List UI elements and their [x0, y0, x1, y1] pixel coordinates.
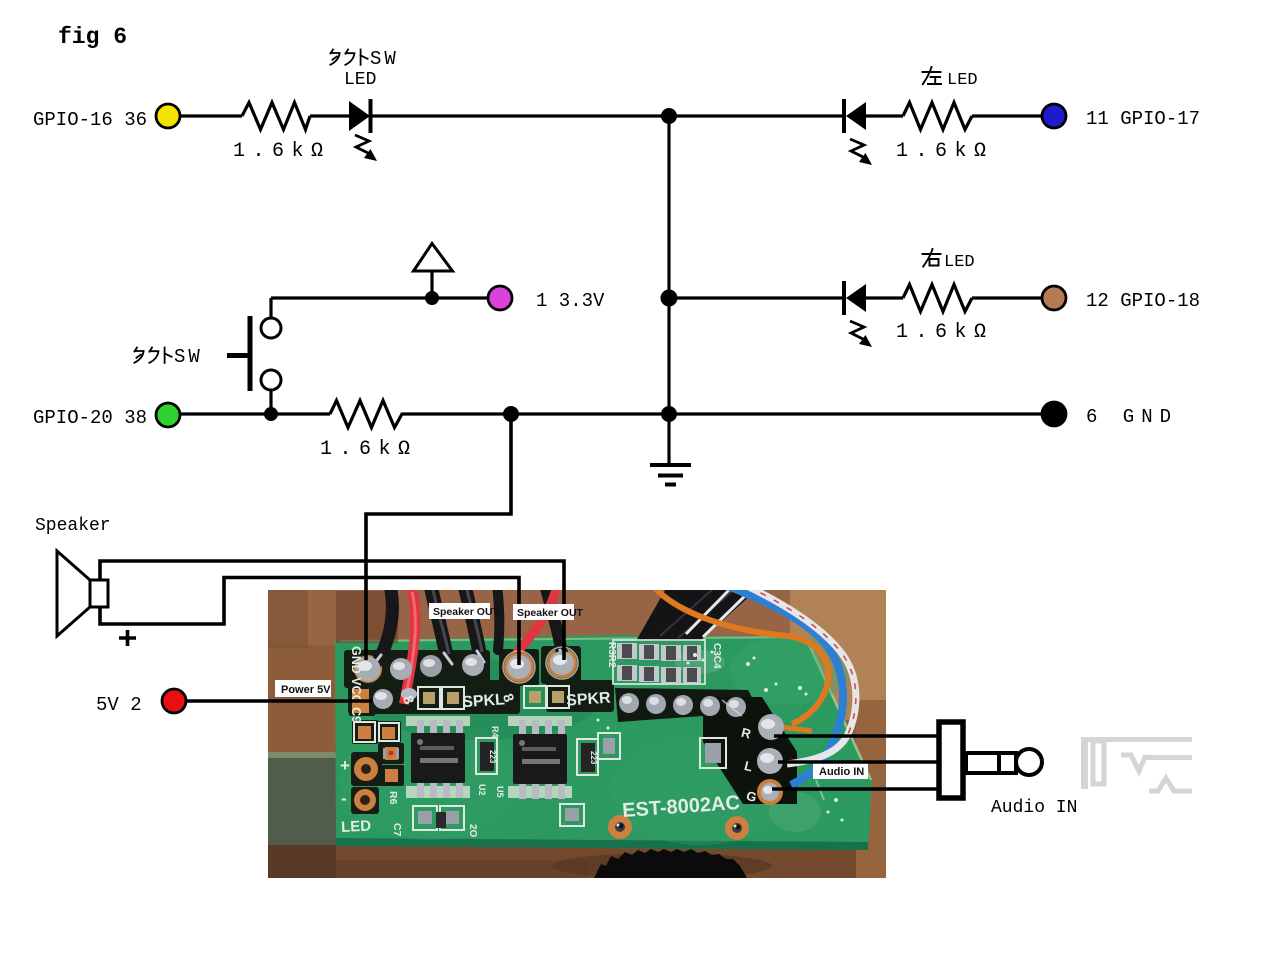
svg-text:SW: SW	[370, 48, 399, 70]
svg-text:GPIO-16 36: GPIO-16 36	[33, 109, 147, 131]
223 capacitor right	[577, 739, 598, 775]
board	[335, 635, 872, 850]
svg-text:-: -	[341, 789, 347, 808]
wire LED2 to R2	[866, 114, 903, 117]
svg-text:fig 6: fig 6	[58, 24, 127, 50]
junction switch/GPIO-20	[264, 407, 278, 421]
svg-text:C3C4: C3C4	[711, 643, 722, 669]
terminal GPIO-16 (yellow)	[156, 104, 180, 128]
audio jack sleeve	[939, 722, 963, 798]
svg-text:223: 223	[589, 751, 598, 765]
svg-text:LED: LED	[944, 253, 975, 272]
solder blobs top row	[356, 651, 575, 709]
svg-text:LED: LED	[947, 71, 978, 90]
power symbol 3.3V triangle	[414, 244, 453, 272]
svg-text:+: +	[340, 756, 350, 775]
wire triangle to junction	[430, 271, 433, 298]
left tab	[268, 752, 336, 845]
LED D1 (takuto SW LED)	[349, 99, 377, 161]
red wire 2	[516, 589, 556, 653]
wire speaker bottom to SPKL	[100, 578, 519, 666]
svg-text:U2: U2	[477, 784, 487, 796]
terminal GND (black)	[1042, 402, 1066, 426]
LED D2 (left LED)	[844, 99, 872, 165]
mount holes	[608, 815, 632, 839]
label takuto SW LED (katakana)	[330, 50, 367, 65]
svg-text:LED: LED	[341, 817, 372, 836]
svg-text:GPIO-20 38: GPIO-20 38	[33, 407, 147, 429]
amplifier chip U2	[406, 716, 470, 798]
svg-text:1.6kΩ: 1.6kΩ	[320, 438, 418, 461]
SMD grid top right	[613, 640, 705, 684]
dark pad regions top row	[344, 646, 614, 714]
junction rail row3	[661, 406, 677, 422]
dark middle band	[615, 688, 760, 722]
white label Power 5V	[275, 680, 331, 697]
svg-text:R3R2: R3R2	[606, 642, 617, 668]
terminal GPIO-20 (green)	[156, 403, 180, 427]
svg-text:LED: LED	[344, 70, 376, 90]
terminal GPIO-18 (brown)	[1042, 286, 1066, 310]
svg-text:12 GPIO-18: 12 GPIO-18	[1086, 290, 1200, 312]
scuffs and speckles	[597, 651, 844, 822]
wire LED1 to node A	[372, 114, 669, 117]
svg-text:Speaker OUT: Speaker OUT	[433, 606, 500, 618]
svg-text:1 3.3V: 1 3.3V	[536, 290, 605, 312]
wire R1 to LED1	[310, 114, 350, 117]
svg-text:C7: C7	[391, 823, 403, 837]
audio jack tip	[1016, 749, 1042, 775]
junction speaker tap	[503, 406, 519, 422]
jack shaft divider	[997, 753, 1001, 773]
wire GND tap to board	[366, 414, 511, 660]
knob bottom	[594, 849, 747, 878]
svg-text:GND VCC C9: GND VCC C9	[349, 646, 363, 723]
wire 5V to board	[186, 699, 372, 703]
wood background	[268, 590, 886, 878]
wire LED3 to R3	[866, 296, 903, 299]
junction rail row2	[661, 290, 678, 307]
black cable bundle top-right	[636, 585, 762, 641]
wire L pad to jack	[778, 760, 937, 763]
wire speaker top to SPKR	[100, 561, 564, 660]
svg-text:R4: R4	[490, 726, 500, 738]
terminal GPIO-17 (blue)	[1042, 104, 1066, 128]
resistor 1.6k row2 right	[903, 285, 972, 312]
svg-text:Speaker OUT: Speaker OUT	[517, 607, 584, 619]
wire R2 to GPIO-17	[972, 114, 1043, 117]
svg-text:223: 223	[488, 750, 497, 764]
svg-text:1.6kΩ: 1.6kΩ	[233, 140, 331, 163]
label hidari LED (left LED)	[923, 67, 942, 84]
audio jack shaft	[966, 753, 1016, 773]
white wire	[747, 586, 856, 764]
terminal 5V (red)	[162, 689, 186, 713]
junction 3.3V	[425, 291, 439, 305]
amplifier chip U5	[508, 716, 572, 799]
white label Speaker OUT (left)	[429, 603, 500, 619]
wire switch to GPIO-20 line	[269, 390, 272, 414]
speaker symbol	[57, 551, 136, 646]
switch takuto SW	[227, 316, 281, 391]
resistor 1.6k row1 right	[903, 103, 972, 130]
svg-text:1.6kΩ: 1.6kΩ	[896, 140, 994, 163]
wire R pad to jack	[774, 734, 937, 737]
223 capacitor mid	[476, 738, 497, 774]
grey watermark icon	[1081, 737, 1192, 791]
wire 3.3V terminal to switch corner	[271, 296, 489, 299]
orange wire	[653, 586, 829, 724]
terminal 3.3V (magenta)	[488, 286, 512, 310]
svg-text:SPKL: SPKL	[462, 691, 506, 711]
node rail junction row2	[669, 296, 843, 299]
svg-text:11 GPIO-17: 11 GPIO-17	[1086, 108, 1200, 130]
label migi LED (right LED)	[923, 249, 941, 267]
dark squares left cluster	[349, 684, 404, 814]
svg-text:SW: SW	[174, 346, 203, 368]
orange rings under speaker pads	[504, 652, 534, 682]
svg-text:Audio IN: Audio IN	[991, 798, 1077, 818]
wire GPIO-16 to R1	[180, 114, 242, 117]
white label Audio IN	[813, 762, 868, 779]
svg-text:Audio IN: Audio IN	[819, 766, 864, 778]
resistor 1.6k row1 left	[242, 103, 310, 130]
blue wire	[728, 586, 843, 785]
junction rail row1	[661, 108, 677, 124]
wire node A to LED2	[669, 114, 843, 117]
RLG solder pads	[757, 714, 784, 801]
red wire 1	[404, 589, 415, 704]
LED D3 (right LED)	[844, 281, 872, 347]
svg-text:SPKR: SPKR	[566, 690, 612, 710]
wire R3 to GPIO-18	[972, 296, 1043, 299]
black cables top	[336, 591, 398, 643]
svg-text:R6: R6	[387, 791, 399, 805]
svg-text:U5: U5	[495, 786, 505, 798]
wire R4 to GND terminal	[409, 412, 1043, 415]
middle solder blobs row	[619, 693, 746, 717]
svg-text:Speaker: Speaker	[35, 516, 111, 536]
ground symbol	[650, 465, 691, 485]
label takuto SW (switch, katakana)	[134, 348, 171, 363]
PCB PHOTO	[268, 583, 886, 879]
svg-text:2O: 2O	[467, 824, 478, 838]
svg-text:6 GND: 6 GND	[1086, 406, 1178, 428]
small SMDs with white frames below pads	[413, 686, 726, 830]
orange pads	[352, 689, 398, 811]
svg-text:Power 5V: Power 5V	[281, 684, 331, 696]
wire corner down to switch	[269, 298, 272, 318]
white label Speaker OUT (right)	[513, 604, 584, 620]
svg-text:1.6kΩ: 1.6kΩ	[896, 321, 994, 344]
board shade variation	[340, 720, 520, 840]
vertical rail	[667, 116, 670, 465]
svg-text:5V 2: 5V 2	[96, 694, 142, 716]
wire G pad to jack	[772, 787, 937, 790]
resistor 1.6k row3	[330, 401, 409, 428]
dark RLG region	[703, 697, 797, 804]
wire GPIO-20 to switch junction	[180, 412, 330, 415]
